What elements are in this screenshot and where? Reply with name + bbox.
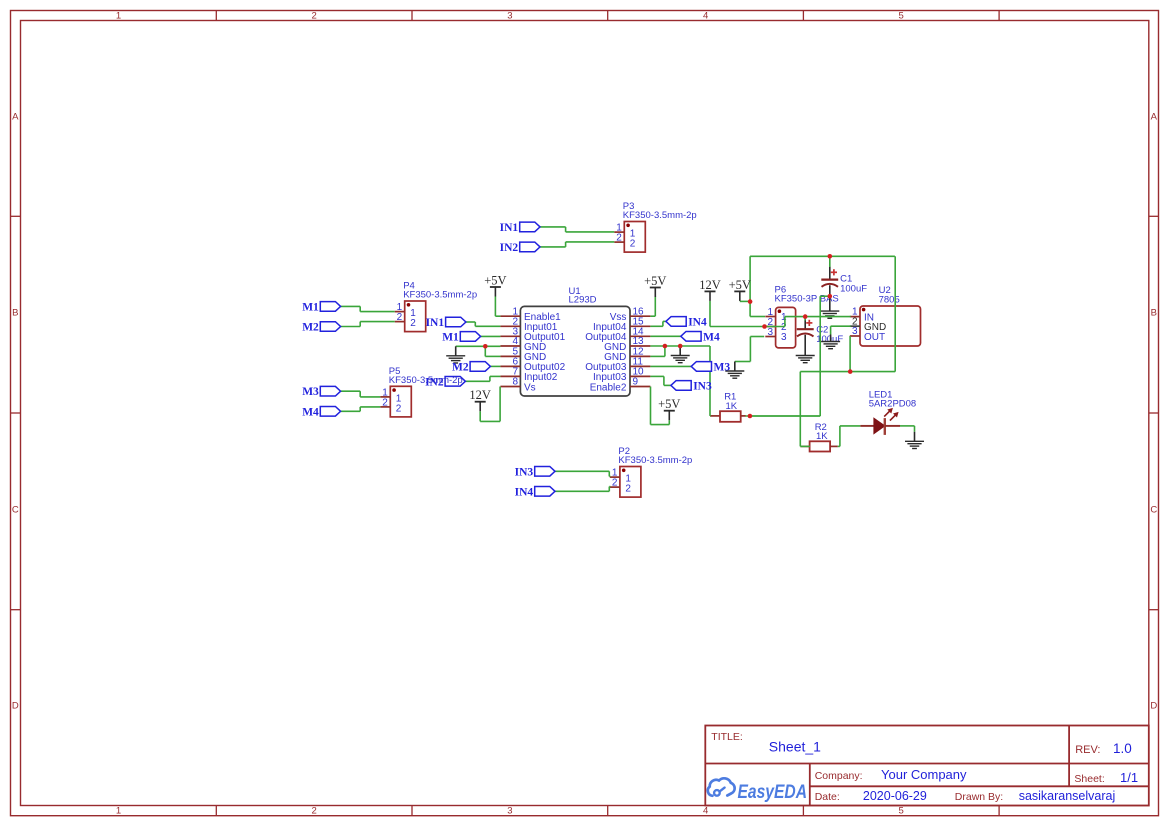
svg-text:IN3: IN3	[693, 380, 712, 392]
wire IN4 to P2 pin2	[555, 487, 610, 492]
wire C1 minus to R1 node	[750, 296, 830, 416]
wire U1 pin15 to IN4	[650, 321, 666, 326]
svg-text:Vs: Vs	[524, 382, 536, 393]
svg-text:2: 2	[312, 806, 317, 817]
wire M2 to P4 pin2	[341, 322, 395, 327]
svg-text:M2: M2	[302, 322, 319, 334]
svg-text:M3: M3	[302, 386, 319, 398]
wire IN1 to P3 pin1	[540, 227, 614, 232]
power +5V	[644, 274, 666, 297]
svg-text:+5V: +5V	[658, 397, 680, 411]
wire IN1 to U1 pin2	[466, 322, 501, 326]
svg-text:7805: 7805	[879, 295, 900, 306]
wire U1 pin16 to +5V	[650, 297, 655, 317]
svg-text:1/1: 1/1	[1120, 770, 1138, 785]
svg-text:2020-06-29: 2020-06-29	[863, 789, 927, 803]
svg-text:5: 5	[899, 806, 904, 817]
svg-text:2: 2	[630, 239, 636, 250]
junction	[828, 294, 833, 299]
svg-text:5: 5	[899, 11, 904, 22]
power 12V	[699, 278, 721, 301]
svg-text:KF350-3.5mm-2p: KF350-3.5mm-2p	[623, 210, 697, 221]
svg-text:1: 1	[116, 11, 121, 22]
net flag IN1 at P3	[500, 222, 540, 234]
wire U1 pin13 to R1	[650, 346, 710, 416]
junction	[762, 324, 767, 329]
wire top rail	[750, 255, 895, 257]
svg-text:C: C	[12, 504, 19, 515]
svg-text:TITLE:: TITLE:	[711, 731, 743, 743]
wire U1 pin9 to +5V	[651, 387, 670, 425]
connector P6	[765, 284, 838, 348]
svg-text:D: D	[12, 701, 19, 712]
svg-text:2: 2	[396, 404, 402, 415]
svg-text:Sheet_1: Sheet_1	[769, 739, 821, 755]
junction	[678, 344, 683, 349]
resistor R1 1K	[711, 392, 746, 422]
wire C2 plus	[804, 317, 806, 321]
wire U2 OUT down	[849, 336, 851, 372]
net flag IN4 at P2	[515, 486, 555, 498]
svg-text:GND: GND	[604, 342, 626, 353]
svg-text:IN2: IN2	[500, 242, 519, 254]
svg-text:3: 3	[507, 11, 512, 22]
net flag IN3 at U1	[671, 380, 712, 392]
ground P6	[725, 362, 744, 379]
svg-text:M2: M2	[452, 361, 469, 373]
svg-text:IN4: IN4	[515, 486, 534, 498]
svg-text:M4: M4	[703, 331, 720, 343]
wire P6 pin3 to ground	[735, 337, 764, 362]
ground U2	[821, 335, 840, 349]
wire R2 to LED	[838, 426, 861, 447]
connector P4	[395, 281, 477, 332]
connector P3	[614, 201, 696, 252]
wire P6 pin2 to U2 IN	[765, 317, 851, 327]
svg-text:+5V: +5V	[484, 274, 506, 288]
wire R1 out	[746, 415, 821, 417]
net flag IN2 at U1	[425, 376, 465, 388]
svg-text:REV:: REV:	[1075, 744, 1100, 756]
title block	[705, 726, 1149, 806]
svg-text:B: B	[1151, 308, 1157, 319]
svg-text:3: 3	[507, 806, 512, 817]
svg-text:12V: 12V	[699, 278, 721, 292]
svg-text:D: D	[1150, 701, 1157, 712]
LED LED1 5AR2PD08	[860, 389, 916, 435]
svg-text:3: 3	[781, 332, 787, 343]
svg-text:4: 4	[703, 806, 708, 817]
svg-text:Your Company: Your Company	[881, 767, 967, 782]
junction	[803, 314, 808, 319]
svg-text:1K: 1K	[726, 401, 738, 412]
ground U1 right	[671, 346, 690, 363]
wire 12V to U1 pin8	[480, 387, 500, 422]
wire LED to ground	[900, 426, 915, 432]
junction	[748, 299, 753, 304]
power +5V	[658, 397, 680, 420]
svg-text:KF350-3.5mm-2p: KF350-3.5mm-2p	[403, 290, 477, 301]
svg-text:2: 2	[410, 318, 416, 329]
svg-text:IN4: IN4	[688, 316, 707, 328]
net flag M2 at P4	[302, 322, 340, 334]
junction	[828, 254, 833, 259]
svg-text:2: 2	[625, 484, 631, 495]
wire +5V to U1 pin1	[495, 297, 500, 317]
power +5V	[484, 274, 506, 297]
svg-text:1: 1	[116, 806, 121, 817]
title block texts	[711, 731, 1138, 803]
net flag M3 at P5	[302, 386, 340, 398]
svg-text:A: A	[12, 112, 19, 123]
net flag M3 at U1	[691, 361, 730, 373]
ground C2	[796, 346, 815, 363]
svg-text:+5V: +5V	[729, 278, 751, 292]
svg-text:M3: M3	[714, 361, 731, 373]
connector P2	[610, 446, 692, 497]
junction	[483, 344, 488, 349]
wire down to R2	[800, 372, 810, 447]
svg-text:L293D: L293D	[569, 295, 597, 306]
net flag M1 at U1	[442, 331, 480, 343]
svg-text:C: C	[1150, 504, 1157, 515]
svg-text:M1: M1	[302, 301, 319, 313]
net flag M4 at U1	[681, 331, 720, 343]
junction	[848, 369, 853, 374]
wire U1 pin11 to M3	[650, 365, 691, 367]
EasyEDA logo	[708, 778, 807, 803]
svg-text:KF350-3.5mm-2p: KF350-3.5mm-2p	[618, 455, 692, 466]
capacitor C1 100uF	[821, 267, 867, 297]
svg-text:Enable2: Enable2	[590, 382, 627, 393]
net flag M4 at P5	[302, 406, 340, 418]
svg-text:9: 9	[633, 377, 639, 388]
svg-text:12V: 12V	[469, 388, 491, 402]
junction	[663, 344, 668, 349]
ground U1 left	[446, 346, 465, 363]
net flag M2 at U1	[452, 361, 490, 373]
IC U1 L293D	[500, 286, 650, 396]
svg-text:100uF: 100uF	[840, 283, 867, 294]
frame row ticks left/right	[11, 216, 1159, 609]
svg-text:KF350-3.5mm-2p: KF350-3.5mm-2p	[389, 375, 463, 386]
svg-text:Drawn By:: Drawn By:	[955, 791, 1003, 803]
wire junction to ground	[679, 346, 681, 351]
wire M1 to P4 pin1	[341, 306, 395, 311]
svg-text:B: B	[12, 308, 18, 319]
frame column labels	[116, 11, 904, 817]
svg-text:Company:: Company:	[815, 770, 863, 782]
svg-text:3: 3	[852, 326, 858, 337]
svg-text:2: 2	[397, 312, 403, 323]
wire 12V to P6 pin2	[710, 301, 764, 327]
wire GND to U1 pin4	[456, 345, 501, 347]
wire rail to C1	[829, 256, 831, 267]
svg-text:M1: M1	[442, 331, 459, 343]
frame row labels	[12, 112, 1158, 712]
power 12V	[469, 388, 491, 411]
svg-text:Sheet:: Sheet:	[1074, 773, 1104, 785]
svg-text:sasikaranselvaraj: sasikaranselvaraj	[1019, 789, 1116, 803]
wire U1 pin10 to IN3	[650, 376, 671, 385]
svg-text:2: 2	[612, 478, 618, 489]
wire U1 pin14 to M4	[650, 335, 680, 337]
svg-text:A: A	[1151, 112, 1158, 123]
svg-text:2: 2	[616, 233, 622, 244]
junction	[748, 414, 753, 419]
svg-text:3: 3	[768, 327, 774, 338]
net flag IN2 at P3	[500, 242, 540, 254]
svg-text:GND: GND	[524, 342, 546, 353]
svg-text:5AR2PD08: 5AR2PD08	[869, 399, 917, 410]
wire M2 to U1 pin6	[490, 365, 500, 367]
svg-text:IN1: IN1	[500, 222, 519, 234]
svg-text:4: 4	[512, 336, 518, 347]
ground LED	[905, 432, 924, 449]
frame column ticks top/bottom	[216, 11, 999, 816]
svg-text:2: 2	[382, 397, 388, 408]
svg-text:1.0: 1.0	[1113, 741, 1132, 756]
svg-text:4: 4	[703, 11, 708, 22]
net flag IN3 at P2	[515, 466, 555, 478]
wire rail to P6 pin1	[750, 256, 765, 316]
svg-text:EasyEDA: EasyEDA	[738, 782, 808, 803]
svg-text:8: 8	[512, 377, 518, 388]
wire +5V to rail	[740, 300, 750, 302]
net flag IN1 at U1	[426, 317, 466, 329]
wire IN2 to P3 pin2	[540, 242, 614, 247]
capacitor C2 100uF	[797, 317, 844, 346]
ground C1	[820, 296, 839, 318]
wire M3 to P5 pin1	[341, 391, 381, 397]
svg-text:Date:: Date:	[815, 791, 840, 803]
wire IN3 to P2 pin1	[555, 471, 610, 476]
svg-text:M4: M4	[302, 406, 319, 418]
wire M1 to U1 pin3	[481, 335, 501, 337]
regulator U2 7805	[850, 285, 921, 346]
wire U2 GND to ground	[831, 326, 851, 334]
power +5V	[729, 278, 751, 301]
svg-text:IN1: IN1	[426, 317, 445, 329]
svg-text:OUT: OUT	[864, 332, 885, 343]
connector P5	[380, 366, 411, 417]
svg-text:IN3: IN3	[515, 466, 534, 478]
wire IN2 to U1 pin7	[465, 376, 500, 381]
resistor R2 1K	[800, 422, 837, 452]
net flag IN4 at U1	[666, 316, 707, 328]
net flag M1 at P4	[302, 301, 340, 313]
wire M4 to P5 pin2	[341, 407, 381, 411]
wire junction to U1 pin5	[485, 346, 500, 356]
wire OUT rail right leg	[800, 256, 895, 371]
svg-text:13: 13	[633, 336, 645, 347]
wire junction to U1 pin12	[650, 346, 665, 356]
svg-text:1K: 1K	[816, 431, 828, 442]
svg-text:2: 2	[312, 11, 317, 22]
svg-text:+5V: +5V	[644, 274, 666, 288]
